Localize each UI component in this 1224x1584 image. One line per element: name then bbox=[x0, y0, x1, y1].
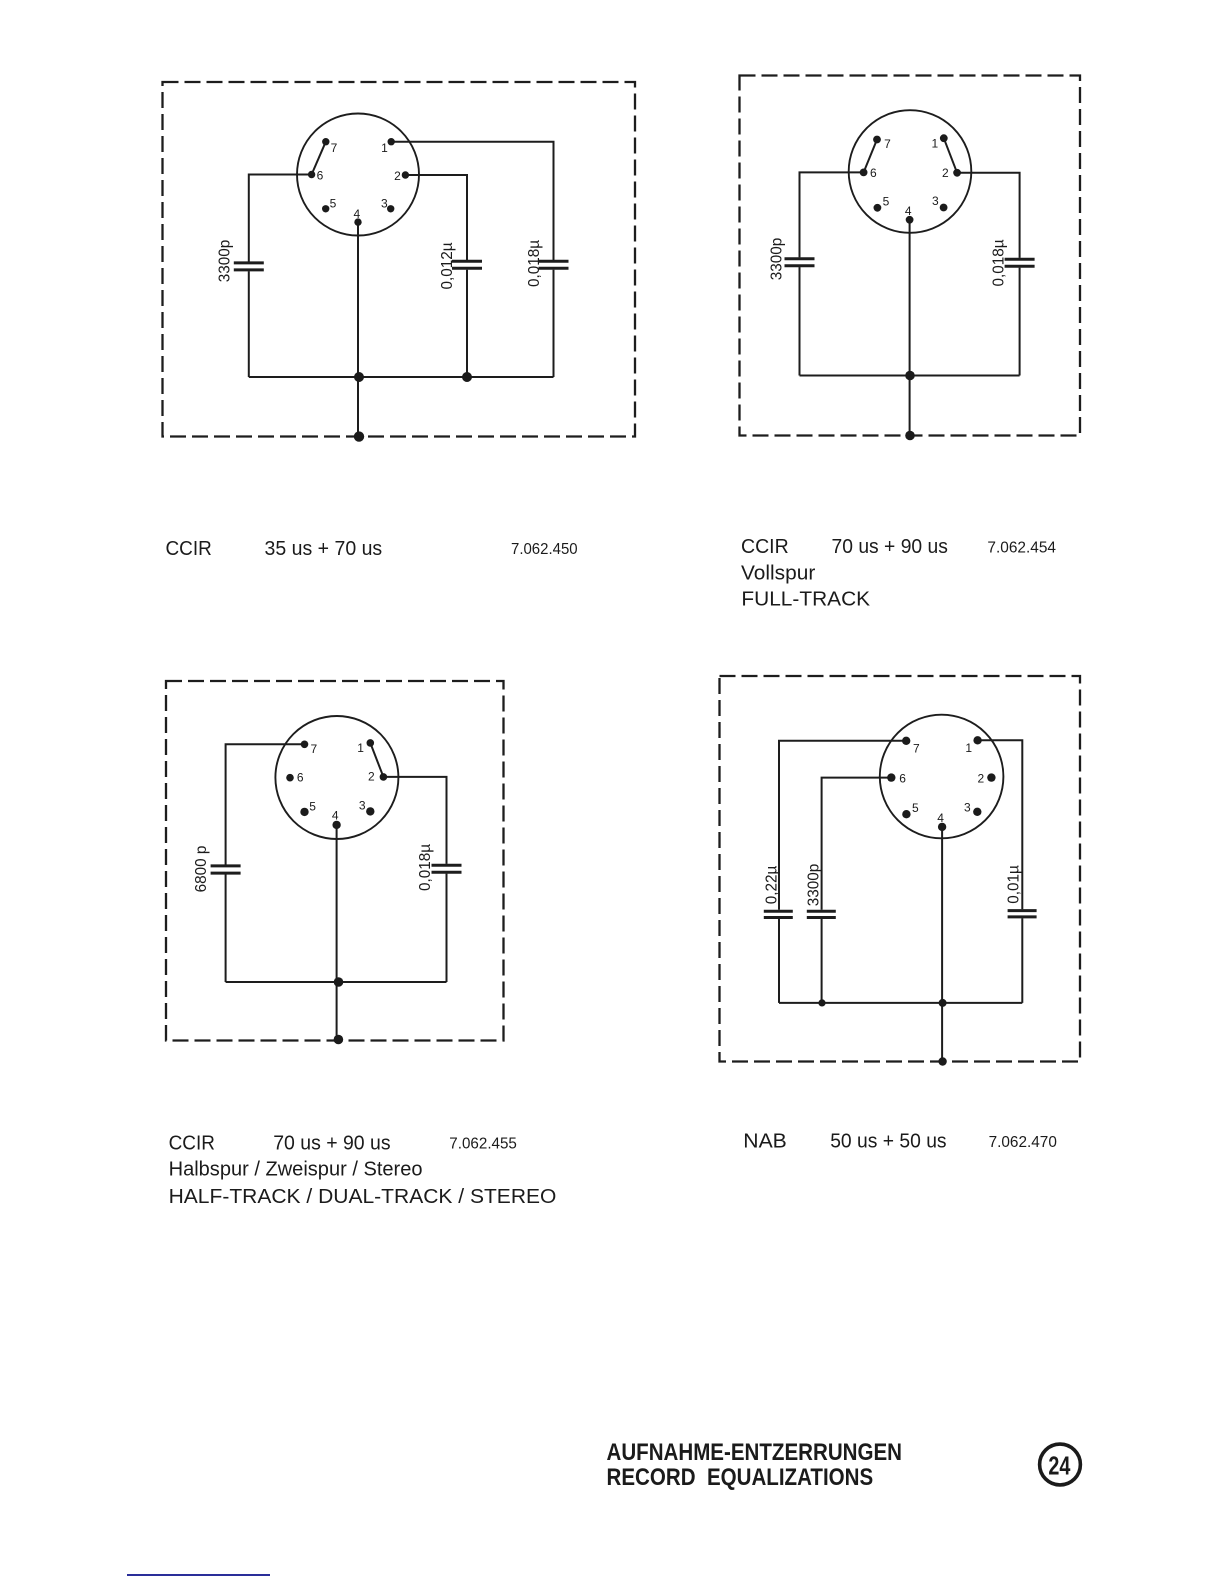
svg-text:CCIR: CCIR bbox=[741, 535, 789, 558]
svg-text:5: 5 bbox=[309, 799, 316, 813]
node shield junction bbox=[334, 1035, 344, 1045]
pin 7 bbox=[902, 737, 910, 745]
node bus junction bbox=[334, 977, 344, 987]
pin 1 bbox=[388, 138, 395, 145]
wire pin6 to C1 bbox=[249, 175, 312, 262]
svg-text:7: 7 bbox=[311, 742, 318, 756]
blue underline mark bbox=[127, 1574, 270, 1576]
ground bus wire bbox=[226, 981, 447, 983]
svg-text:HALF-TRACK / DUAL-TRACK / STER: HALF-TRACK / DUAL-TRACK / STEREO bbox=[169, 1185, 557, 1208]
ground bus wire bbox=[779, 1002, 1022, 1004]
svg-text:1: 1 bbox=[381, 141, 388, 155]
svg-text:3: 3 bbox=[359, 798, 366, 812]
jumper pin7-pin6 bbox=[864, 140, 877, 173]
svg-text:3300p: 3300p bbox=[769, 238, 786, 281]
pin 4 bbox=[906, 216, 914, 224]
wire pin4 to shield bbox=[357, 222, 359, 437]
svg-text:1: 1 bbox=[931, 136, 938, 150]
svg-text:5: 5 bbox=[330, 197, 337, 211]
capacitor C6 6800p plates bbox=[211, 866, 241, 873]
svg-text:70 us + 90 us: 70 us + 90 us bbox=[832, 535, 948, 558]
svg-text:7: 7 bbox=[331, 141, 338, 155]
svg-text:2: 2 bbox=[978, 771, 985, 785]
svg-text:5: 5 bbox=[912, 801, 919, 815]
svg-text:24: 24 bbox=[1048, 1450, 1070, 1480]
wire pin4 to shield bbox=[336, 825, 338, 1040]
svg-text:7: 7 bbox=[913, 742, 920, 756]
pin 3 bbox=[366, 807, 374, 815]
connector U1 (7-pin socket outline) bbox=[297, 114, 419, 236]
wire pin1 to C10 bbox=[978, 740, 1023, 909]
svg-text:6: 6 bbox=[317, 168, 324, 182]
capacitor C2 0,012u plates bbox=[452, 261, 482, 268]
svg-text:7.062.470: 7.062.470 bbox=[989, 1134, 1057, 1151]
jumper pin7-pin6 bbox=[312, 142, 326, 175]
svg-text:0,018µ: 0,018µ bbox=[417, 844, 434, 891]
svg-text:35 us + 70 us: 35 us + 70 us bbox=[265, 537, 383, 560]
caption CCIR 35us bbox=[166, 537, 578, 560]
pin 6 bbox=[308, 171, 315, 178]
wire C8 to bus bbox=[778, 919, 780, 1003]
caption CCIR 70us FULL-TRACK bbox=[741, 535, 1056, 610]
pin 6 bbox=[286, 774, 294, 782]
svg-text:2: 2 bbox=[942, 166, 949, 180]
enclosure (dashed shield box) bbox=[740, 76, 1081, 436]
ground bus wire bbox=[800, 375, 1020, 377]
svg-text:4: 4 bbox=[332, 809, 339, 823]
capacitor C1 3300p plates bbox=[234, 263, 264, 270]
wire C10 to bus bbox=[1021, 918, 1023, 1003]
pin 1 bbox=[940, 134, 948, 142]
wire pin7 to C6 bbox=[226, 744, 305, 864]
svg-text:7.062.455: 7.062.455 bbox=[449, 1136, 517, 1153]
capacitor C5 0,018u plates bbox=[1005, 259, 1035, 266]
svg-text:Vollspur: Vollspur bbox=[741, 562, 815, 585]
jumper pin1-pin2 bbox=[370, 743, 383, 777]
node shield junction bbox=[354, 431, 364, 441]
svg-text:RECORD EQUALIZATIONS: RECORD EQUALIZATIONS bbox=[607, 1465, 874, 1491]
page number circle bbox=[1040, 1444, 1081, 1485]
pin 2 bbox=[380, 773, 388, 781]
pin 4 bbox=[332, 821, 340, 829]
node shield junction bbox=[938, 1057, 946, 1065]
svg-text:2: 2 bbox=[368, 769, 375, 783]
wire pin4 to shield bbox=[909, 220, 911, 436]
svg-text:1: 1 bbox=[965, 741, 972, 755]
jumper pin1-pin2 bbox=[944, 138, 957, 173]
wire pin2 to C2 bbox=[405, 175, 467, 260]
connector U2 (7-pin socket outline) bbox=[849, 110, 972, 233]
connector U3 (7-pin socket outline) bbox=[275, 716, 398, 839]
capacitor C10 0,01u plates bbox=[1008, 911, 1037, 917]
pin 7 bbox=[873, 136, 881, 144]
svg-text:CCIR: CCIR bbox=[166, 537, 212, 560]
svg-text:70 us + 90 us: 70 us + 90 us bbox=[273, 1131, 390, 1154]
svg-text:7.062.450: 7.062.450 bbox=[511, 541, 578, 558]
wire C2 to bus bbox=[466, 270, 468, 377]
pin 3 bbox=[973, 808, 981, 816]
wire C4 to bus bbox=[799, 267, 801, 375]
pin 6 bbox=[860, 169, 868, 177]
svg-text:6: 6 bbox=[899, 771, 906, 785]
node bus junction at 3300p bbox=[818, 999, 825, 1006]
svg-text:5: 5 bbox=[883, 194, 890, 208]
node bus junction bbox=[905, 371, 915, 381]
svg-text:6: 6 bbox=[870, 166, 877, 180]
node shield junction bbox=[905, 431, 915, 441]
pin 1 bbox=[973, 736, 981, 744]
capacitor C4 3300p plates bbox=[785, 259, 815, 266]
svg-text:4: 4 bbox=[937, 811, 944, 825]
svg-text:4: 4 bbox=[905, 204, 912, 218]
wire pin2 to C7 bbox=[383, 777, 446, 864]
pin 2 bbox=[402, 171, 409, 178]
capacitor C7 0,018u plates bbox=[432, 865, 462, 872]
pin 2 bbox=[987, 773, 995, 781]
wire C3 to bus bbox=[553, 270, 555, 377]
svg-text:NAB: NAB bbox=[743, 1130, 787, 1153]
svg-text:CCIR: CCIR bbox=[169, 1131, 215, 1154]
ground bus wire bbox=[249, 376, 554, 378]
svg-text:7.062.454: 7.062.454 bbox=[987, 540, 1056, 557]
svg-text:3: 3 bbox=[964, 801, 971, 815]
pin 2 bbox=[953, 169, 961, 177]
pin 6 bbox=[887, 773, 895, 781]
wire pin6 to C4 bbox=[800, 172, 864, 257]
node bus junction at pin4 bbox=[939, 999, 947, 1007]
node bus junction at 0,012u bbox=[462, 372, 472, 382]
svg-text:50 us + 50 us: 50 us + 50 us bbox=[830, 1130, 946, 1153]
svg-text:7: 7 bbox=[884, 137, 891, 151]
svg-text:0,018µ: 0,018µ bbox=[991, 239, 1008, 286]
pin 7 bbox=[301, 741, 309, 749]
pin 1 bbox=[367, 739, 375, 747]
pin 4 bbox=[938, 823, 946, 831]
capacitor C9 3300p plates bbox=[807, 911, 836, 917]
caption NAB 50us bbox=[743, 1130, 1057, 1153]
pin 5 bbox=[874, 204, 882, 212]
pin 7 bbox=[322, 138, 329, 145]
connector U4 (7-pin socket outline) bbox=[880, 715, 1004, 839]
svg-text:0,018µ: 0,018µ bbox=[526, 240, 543, 287]
wire pin7 to C8 bbox=[779, 741, 906, 910]
svg-text:0,22µ: 0,22µ bbox=[764, 866, 781, 905]
svg-text:3300p: 3300p bbox=[806, 864, 823, 907]
svg-text:3: 3 bbox=[381, 197, 388, 211]
svg-text:Halbspur / Zweispur / Stereo: Halbspur / Zweispur / Stereo bbox=[169, 1158, 423, 1181]
pin 5 bbox=[322, 205, 329, 212]
wire C6 to bus bbox=[225, 875, 227, 983]
svg-text:6: 6 bbox=[297, 770, 304, 784]
wire pin6 to C9 bbox=[822, 778, 892, 910]
wire C1 to bus bbox=[248, 271, 250, 377]
wire pin1 to C3 bbox=[391, 142, 553, 260]
node bus-C2 junction bbox=[354, 372, 364, 382]
enclosure (dashed shield box) bbox=[166, 681, 504, 1041]
svg-text:3300p: 3300p bbox=[217, 240, 234, 283]
svg-text:FULL-TRACK: FULL-TRACK bbox=[741, 587, 870, 610]
wire pin2 to C5 bbox=[957, 173, 1020, 258]
svg-text:3: 3 bbox=[932, 194, 939, 208]
svg-text:0,012µ: 0,012µ bbox=[439, 242, 456, 289]
svg-text:4: 4 bbox=[354, 207, 361, 221]
pin 4 bbox=[354, 218, 361, 225]
wire pin4 to shield bbox=[941, 827, 943, 1062]
pin 5 bbox=[300, 808, 308, 816]
enclosure (dashed shield box) bbox=[720, 676, 1081, 1062]
caption CCIR 70us HALF-TRACK bbox=[169, 1131, 557, 1208]
capacitor C3 0,018u plates bbox=[539, 261, 569, 268]
svg-text:AUFNAHME-ENTZERRUNGEN: AUFNAHME-ENTZERRUNGEN bbox=[607, 1440, 903, 1466]
svg-text:1: 1 bbox=[357, 741, 364, 755]
capacitor C8 0,22u plates bbox=[764, 911, 793, 917]
enclosure (dashed shield box) bbox=[163, 82, 636, 437]
svg-text:6800 p: 6800 p bbox=[193, 846, 210, 893]
wire C5 to bus bbox=[1019, 268, 1021, 376]
pin 3 bbox=[387, 205, 394, 212]
pin 5 bbox=[902, 810, 910, 818]
pin 3 bbox=[940, 204, 948, 212]
wire C9 to bus bbox=[821, 919, 823, 1003]
svg-text:0,01µ: 0,01µ bbox=[1006, 865, 1023, 904]
svg-text:2: 2 bbox=[394, 169, 401, 183]
wire C7 to bus bbox=[446, 874, 448, 982]
